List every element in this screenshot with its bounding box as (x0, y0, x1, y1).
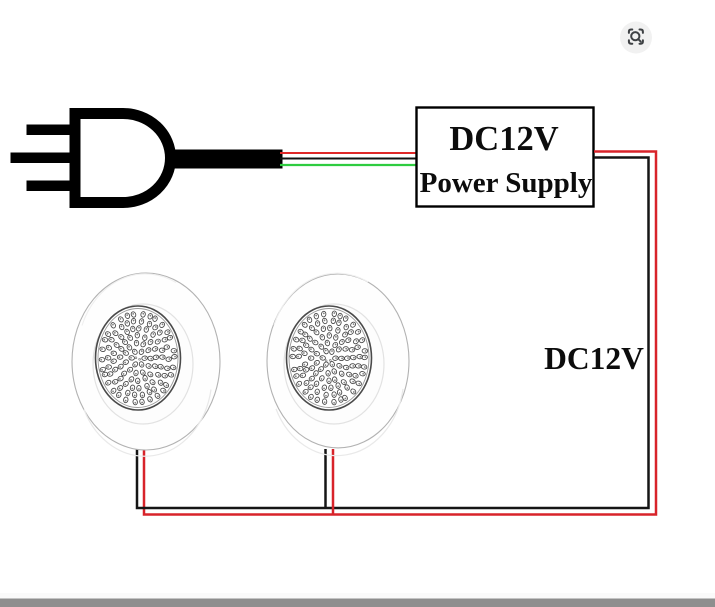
LED array of light L2 (290, 311, 368, 405)
power supply box (417, 108, 594, 207)
trim ring of light L1 (93, 304, 193, 424)
trim ring of light L2 (284, 304, 384, 424)
bottom gray bar (0, 599, 715, 607)
face rim outer of light L1 (96, 306, 181, 410)
wire red light2 drop (332, 449, 335, 515)
face rim inner of light L2 (289, 309, 369, 408)
bottom light strip (0, 593, 715, 599)
wire black light2 drop (324, 449, 327, 508)
svg-text:Power Supply: Power Supply (420, 167, 593, 199)
svg-text:DC12V: DC12V (544, 341, 644, 376)
plug prong top (27, 125, 70, 136)
LED pool light L1 (72, 273, 220, 456)
wire green plug to supply (280, 164, 416, 166)
wire black supply loop (137, 158, 649, 509)
plug prong bottom (27, 181, 70, 192)
AC plug body (75, 114, 171, 203)
face rim outer of light L2 (287, 306, 372, 410)
google lens button (620, 22, 652, 54)
AC plug cable (166, 150, 283, 169)
wire black plug to supply (280, 158, 416, 160)
plug prong middle (11, 153, 70, 164)
outer housing ellipse of light L2 (267, 274, 409, 448)
outer highlight arc of light L1 (84, 390, 211, 457)
wire red plug to supply (280, 152, 416, 154)
upper highlight arc of light L2 (274, 273, 368, 325)
LED pool light L2 (267, 273, 409, 455)
upper highlight arc of light L1 (82, 274, 176, 326)
face rim inner of light L1 (98, 309, 178, 408)
svg-text:DC12V: DC12V (449, 120, 558, 158)
wire red supply loop (144, 152, 656, 515)
outer highlight arc of light L2 (276, 389, 403, 456)
outer housing ellipse of light L1 (72, 273, 220, 450)
LED array of light L1 (99, 311, 178, 405)
